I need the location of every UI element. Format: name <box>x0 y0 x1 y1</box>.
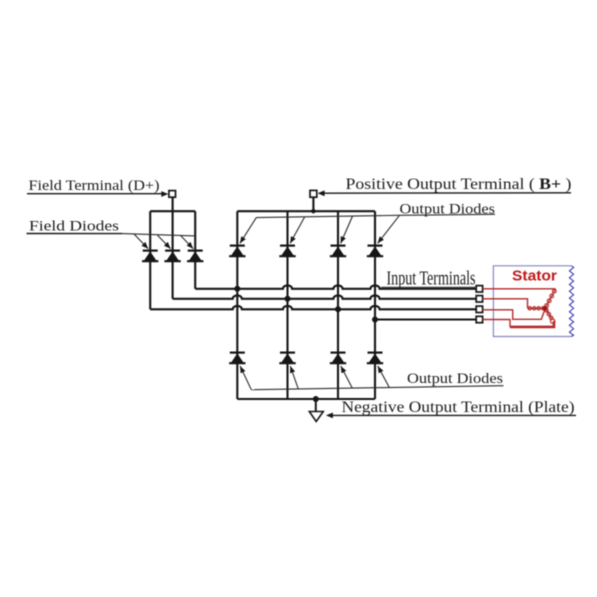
wire: rectifier leg 3 vertical <box>337 211 339 399</box>
positive output diode 4 <box>367 246 383 257</box>
negative output diode 1 <box>229 353 245 364</box>
terminal: stator input 1 (open square) <box>476 286 482 292</box>
wire: neutral bus 4 <box>375 318 476 320</box>
wire: B+ terminal drop <box>312 197 314 211</box>
wire: field diode right vertical <box>194 211 196 289</box>
field diode D2 <box>164 251 180 262</box>
svg-text:Output Diodes: Output Diodes <box>407 371 503 387</box>
label: Field Terminal (D+) <box>27 178 168 197</box>
negative output diode 2 <box>279 353 295 364</box>
label: Negative Output Terminal (Plate) <box>326 399 576 418</box>
positive output diode 2 <box>279 246 295 257</box>
terminal: stator input 3 (open square) <box>476 306 482 312</box>
pointer arrows to field diodes <box>134 234 193 249</box>
pointer arrows to top output diodes <box>240 215 400 243</box>
wire: phase bus 1 (with hops) <box>195 285 476 288</box>
junction dot neutral <box>372 317 378 323</box>
wire: field D+ bus (top of field diodes) <box>150 210 195 212</box>
svg-text:Input Terminals: Input Terminals <box>387 268 476 289</box>
negative output diode 4 <box>367 353 383 364</box>
junction dot ground <box>313 396 319 402</box>
stator phase winding A lead <box>483 288 556 290</box>
label: Output Diodes (top) with leader <box>256 201 495 217</box>
label: Positive Output Terminal ( B+ ) <box>318 176 572 196</box>
label: Field Diodes with leader <box>27 219 196 236</box>
stator coil B <box>528 307 546 309</box>
wire: rectifier leg 4 vertical <box>374 211 376 399</box>
stator phase winding C lead <box>483 320 511 327</box>
wire: rectifier leg 2 vertical <box>286 211 288 399</box>
stator box zigzag right edge <box>569 266 573 337</box>
stator star point <box>543 306 548 311</box>
terminal: positive output B+ (open square) <box>310 190 317 197</box>
svg-text:Stator: Stator <box>512 267 557 284</box>
wire: main B+ bus (top of output diodes) <box>237 210 375 212</box>
svg-text:Field Terminal (D+): Field Terminal (D+) <box>29 178 160 194</box>
stator coil A <box>545 289 555 308</box>
field diode D1 <box>142 251 158 262</box>
wire: negative plate bus <box>237 398 375 400</box>
label: Input Terminals <box>381 286 476 288</box>
junction dot phase 2 <box>285 296 291 302</box>
svg-text:Negative Output Terminal (Plat: Negative Output Terminal (Plate) <box>342 399 575 416</box>
positive output diode 3 <box>330 246 346 257</box>
wire: rectifier leg 1 vertical <box>236 211 238 399</box>
pointer arrows to bottom output diodes <box>240 366 389 390</box>
junction dot phase 3 <box>335 306 341 312</box>
field diode D3 <box>187 251 203 262</box>
wire: phase bus 3 (with hops) <box>150 306 476 309</box>
negative output diode 3 <box>330 353 346 364</box>
wire: field diode middle vertical from D+ terminal <box>172 197 174 298</box>
label: Output Diodes (bottom) with leader <box>251 371 503 390</box>
wire: phase bus 2 (with hops) <box>173 295 477 298</box>
negative plate ground symbol <box>315 399 317 412</box>
stator coil C <box>545 308 552 319</box>
stator box <box>493 266 571 337</box>
junction dot at B+ bus tap <box>311 209 315 213</box>
terminal: field D+ (open square) <box>169 191 176 198</box>
svg-text:Positive Output Terminal ( B+: Positive Output Terminal ( B+ ) <box>346 176 572 193</box>
svg-text:Field Diodes: Field Diodes <box>29 219 119 235</box>
positive output diode 1 <box>229 246 245 257</box>
stator phase winding B lead <box>483 299 528 308</box>
terminal: stator input 4 (open square) <box>476 316 482 322</box>
terminal: stator input 2 (open square) <box>476 296 482 302</box>
wire: field diode vertical / phase-3 elbow <box>149 211 151 309</box>
junction dot phase 1 <box>234 286 240 292</box>
stator neutral lead <box>483 309 546 320</box>
